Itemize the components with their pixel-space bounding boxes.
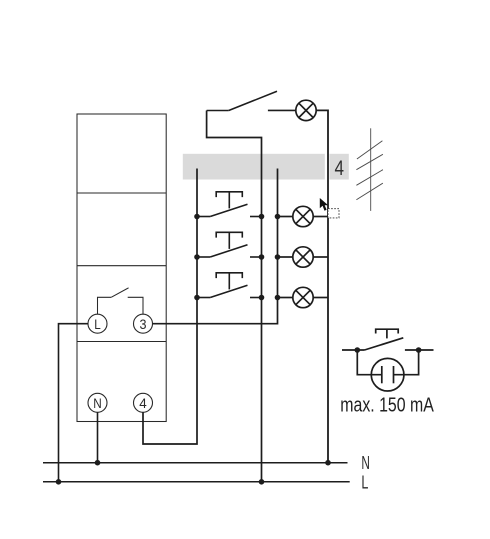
push-button PB3	[197, 273, 262, 298]
mouse cursor	[320, 198, 328, 211]
svg-text:N: N	[361, 453, 370, 473]
device box (staircase timer)	[77, 114, 166, 422]
drop-target dashed box	[328, 209, 339, 218]
junction dot L wire on L line	[56, 479, 62, 485]
relay contact inside device	[98, 288, 144, 314]
top lamp	[296, 100, 316, 120]
terminal 4	[134, 393, 153, 412]
wire N terminal to N line	[97, 412, 99, 462]
terminal N	[88, 393, 107, 412]
wire terminal 4 to push-button rail	[143, 169, 197, 445]
terminal 3	[134, 314, 153, 333]
lamp E2	[278, 247, 329, 267]
junction dot bus on N line	[325, 460, 331, 466]
top wall switch	[207, 91, 296, 110]
svg-text:L: L	[361, 473, 368, 493]
svg-text:max. 150 mA: max. 150 mA	[340, 395, 434, 417]
junction dots row 1	[194, 214, 280, 220]
terminal L	[88, 314, 107, 333]
L line	[43, 481, 350, 483]
N line	[43, 462, 348, 464]
svg-text:4: 4	[335, 157, 345, 180]
svg-text:N: N	[93, 395, 102, 411]
legend glow lamp	[357, 350, 418, 391]
legend terminal dots	[355, 347, 422, 353]
conduit band (grey)	[183, 154, 325, 180]
svg-text:4: 4	[139, 395, 147, 411]
lamp bus down to N line	[316, 110, 328, 462]
push-button PB1	[197, 192, 262, 217]
rail from top switch down to L line	[207, 111, 262, 482]
wire L terminal to L line	[59, 324, 89, 482]
junction dot N wire on N line	[95, 460, 101, 466]
junction dot rail on L line	[259, 479, 265, 485]
lamp E1	[278, 206, 329, 226]
junction dots row 3	[194, 295, 280, 301]
label 4 background box	[329, 154, 348, 180]
wall hatching	[356, 128, 383, 211]
push-button PB2	[197, 232, 262, 257]
svg-text:L: L	[94, 316, 101, 332]
wire terminal 3 to lamp rail	[153, 169, 278, 324]
lamp E3	[278, 287, 329, 307]
svg-text:3: 3	[140, 316, 147, 332]
junction dots row 2	[194, 254, 280, 260]
legend push-button (illuminated)	[342, 329, 434, 350]
